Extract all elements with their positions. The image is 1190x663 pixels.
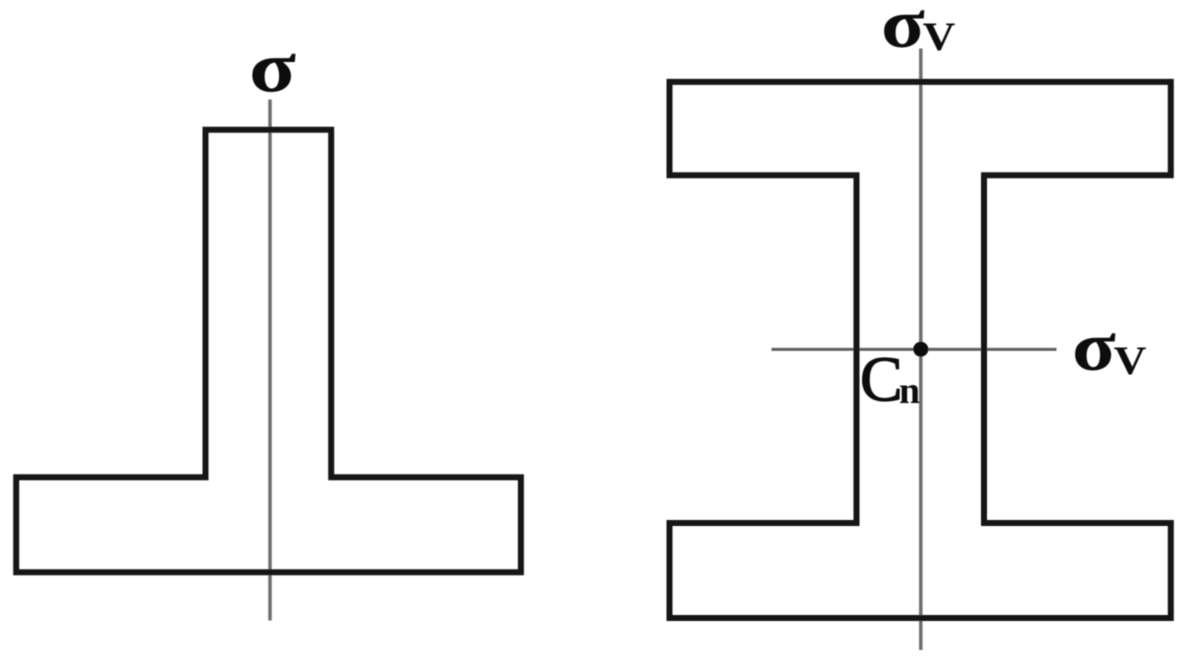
svg-text:σ: σ — [249, 28, 296, 108]
svg-text:C: C — [860, 344, 903, 415]
svg-text:V: V — [1114, 339, 1147, 383]
svg-text:n: n — [899, 370, 920, 412]
svg-text:σ: σ — [1072, 309, 1116, 386]
svg-text:σ: σ — [881, 0, 925, 63]
svg-text:V: V — [923, 15, 956, 59]
